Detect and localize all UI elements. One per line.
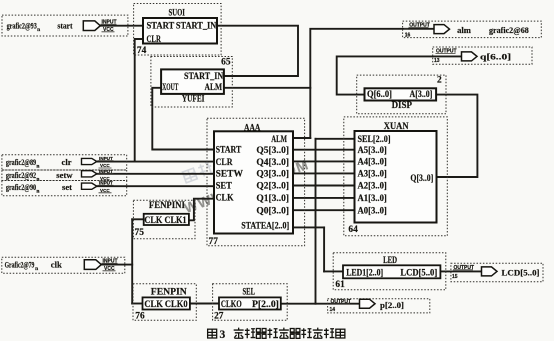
svg-text:SETW: SETW bbox=[216, 169, 244, 180]
svg-text:FENPIN: FENPIN bbox=[151, 287, 187, 297]
input pin symbol: set (grafic2@90) bbox=[6, 181, 114, 195]
svg-text:CLR: CLR bbox=[147, 34, 162, 45]
svg-text:61: 61 bbox=[335, 280, 345, 290]
input pin symbol: start (grafic2@93) bbox=[7, 19, 117, 33]
svg-text:grafic2@93: grafic2@93 bbox=[7, 21, 37, 31]
svg-text:setw: setw bbox=[56, 170, 73, 180]
svg-text:A4[3..0]: A4[3..0] bbox=[358, 157, 387, 167]
output pad p frame bbox=[328, 299, 430, 313]
wire: FENPIN.CLK0 to SEL.CLKO bbox=[190, 303, 219, 305]
svg-text:74: 74 bbox=[137, 46, 147, 56]
input pin symbol: setw (grafic2@92) bbox=[6, 169, 114, 183]
svg-text:2: 2 bbox=[437, 76, 442, 86]
svg-text:INPUT: INPUT bbox=[99, 156, 113, 161]
output pad alm frame bbox=[403, 21, 542, 37]
wire: DISP.A right, down, to XUAN.Q bbox=[436, 95, 477, 177]
wire: YUFEI.ALM right to alm vertical bbox=[224, 87, 310, 89]
wire: clr input to AAA.CLR bbox=[97, 161, 214, 163]
svg-text:start: start bbox=[57, 21, 72, 31]
wire: AAA.Q2 to XUAN.A2 bbox=[293, 185, 355, 187]
svg-text:START_IN: START_IN bbox=[184, 71, 223, 82]
svg-text:A5[3..0]: A5[3..0] bbox=[358, 145, 387, 155]
svg-text:Q[6..0]: Q[6..0] bbox=[367, 89, 392, 99]
svg-text:A0[3..0]: A0[3..0] bbox=[358, 205, 387, 215]
svg-text:n: n bbox=[36, 188, 39, 194]
svg-text:A2[3..0]: A2[3..0] bbox=[358, 181, 387, 191]
block AAA dashed frame bbox=[207, 118, 305, 246]
svg-text:16: 16 bbox=[405, 32, 411, 38]
wire: AAA.Q4 to XUAN.A4 bbox=[293, 160, 355, 162]
wire: alm vertical up to alm output pad bbox=[310, 29, 434, 138]
block DISP dashed frame bbox=[357, 75, 446, 114]
svg-text:n: n bbox=[37, 27, 40, 33]
input pad box: clk bbox=[2, 257, 125, 273]
block DISP body bbox=[365, 88, 437, 100]
svg-text:65: 65 bbox=[221, 58, 231, 68]
block LED body bbox=[343, 265, 440, 278]
svg-text:Q[3..0]: Q[3..0] bbox=[410, 173, 433, 183]
svg-text:P[2..0]: P[2..0] bbox=[252, 299, 279, 309]
output pad q frame bbox=[433, 47, 532, 64]
svg-text:FENPINI: FENPINI bbox=[149, 200, 185, 210]
svg-text:clr: clr bbox=[62, 157, 72, 167]
wire: STATEA branch vertical down to LED row bbox=[323, 227, 325, 271]
svg-text:set: set bbox=[62, 182, 72, 192]
output arrow LCD bbox=[482, 267, 498, 276]
svg-text:SEL[2..0]: SEL[2..0] bbox=[358, 134, 391, 144]
svg-text:grafic2@92: grafic2@92 bbox=[6, 170, 36, 180]
svg-text:YUFEI: YUFEI bbox=[182, 95, 205, 105]
svg-text:Q2[3..0]: Q2[3..0] bbox=[256, 181, 289, 192]
svg-text:LCD[5..0]: LCD[5..0] bbox=[400, 268, 437, 278]
output pad LCD frame bbox=[451, 263, 543, 282]
wire: clk input to clk vertical bbox=[100, 264, 132, 266]
block SEL dashed frame bbox=[213, 284, 288, 321]
svg-text:STATEA[2..0]: STATEA[2..0] bbox=[241, 221, 289, 232]
input pad box: set bbox=[2, 181, 127, 196]
block FENPIN body bbox=[143, 297, 190, 309]
svg-text:n: n bbox=[36, 163, 39, 169]
svg-text:START_IN: START_IN bbox=[176, 21, 216, 32]
svg-text:Q3[3..0]: Q3[3..0] bbox=[256, 169, 289, 180]
input pad box: clr bbox=[2, 155, 127, 170]
svg-text:3: 3 bbox=[220, 329, 226, 341]
svg-text:15: 15 bbox=[452, 274, 458, 280]
svg-text:A3[3..0]: A3[3..0] bbox=[358, 169, 387, 179]
wire: clk stub into FENPIN.CLK bbox=[132, 303, 142, 305]
wire: clk stub into FENPINI.CLK bbox=[132, 218, 144, 220]
block XUAN body bbox=[355, 131, 437, 223]
svg-text:VCC: VCC bbox=[100, 188, 110, 193]
svg-text:grafic2@90: grafic2@90 bbox=[6, 182, 36, 192]
svg-text:64: 64 bbox=[348, 225, 358, 235]
svg-text:75: 75 bbox=[135, 228, 145, 238]
wire: DISP.Q left, up, to q output pad bbox=[337, 56, 462, 94]
block YUFEI dashed frame bbox=[151, 57, 232, 108]
svg-text:ALM: ALM bbox=[271, 134, 287, 145]
wire: AAA.Q5 to XUAN.A5 bbox=[293, 149, 355, 151]
wire: SUOI.CLR stub left then down to clr net bbox=[135, 39, 143, 162]
svg-text:alm: alm bbox=[457, 25, 472, 35]
svg-text:START: START bbox=[216, 145, 242, 156]
block SEL body bbox=[219, 297, 281, 309]
block XUAN dashed frame bbox=[344, 117, 448, 236]
block YUFEI body bbox=[161, 69, 224, 94]
svg-text:LCD[5..0]: LCD[5..0] bbox=[502, 268, 540, 278]
wire: clk vertical between FENPINI and FENPIN bbox=[131, 219, 133, 303]
output arrow alm bbox=[434, 25, 450, 34]
svg-text:A1[3..0]: A1[3..0] bbox=[358, 193, 387, 203]
block AAA body bbox=[214, 131, 293, 233]
block SUOI dashed frame bbox=[134, 4, 222, 56]
svg-text:ALM: ALM bbox=[205, 82, 223, 93]
svg-text:CLK CLK0: CLK CLK0 bbox=[144, 299, 188, 309]
svg-text:Q1[3..0]: Q1[3..0] bbox=[256, 193, 289, 204]
block FENPINI dashed frame bbox=[133, 200, 195, 239]
svg-text:q[6..0]: q[6..0] bbox=[480, 52, 511, 62]
svg-text:SEL: SEL bbox=[243, 286, 256, 296]
input pin symbol: clk (Grafic2@79) bbox=[5, 258, 118, 272]
block FENPIN dashed frame bbox=[133, 284, 196, 321]
svg-text:n: n bbox=[35, 266, 38, 272]
svg-text:Grafic2@79: Grafic2@79 bbox=[5, 260, 35, 270]
svg-text:CLK: CLK bbox=[216, 193, 234, 204]
svg-text:clk: clk bbox=[51, 260, 62, 270]
svg-text:n: n bbox=[36, 176, 39, 182]
svg-text:Q5[3..0]: Q5[3..0] bbox=[256, 145, 289, 156]
wire: STATEA net main vertical (SEL row down to p row) bbox=[315, 139, 317, 304]
svg-text:XOUT: XOUT bbox=[162, 82, 179, 93]
wire: AAA.Q1 to XUAN.A1 bbox=[293, 197, 355, 199]
svg-text:Q4[3..0]: Q4[3..0] bbox=[256, 157, 289, 168]
wire: setw input to AAA.SETW bbox=[97, 173, 214, 175]
wire: AAA.Q0 to XUAN.A0 bbox=[293, 209, 355, 211]
wire: SUOI.START_IN right, down, into YUFEI.START_IN bbox=[217, 26, 298, 76]
svg-text:VCC: VCC bbox=[100, 163, 110, 168]
block FENPINI body bbox=[144, 214, 189, 225]
svg-text:p[2..0]: p[2..0] bbox=[380, 300, 404, 310]
wire: start input to SUOI.START bbox=[100, 25, 143, 27]
svg-text:27: 27 bbox=[214, 312, 224, 322]
svg-text:13: 13 bbox=[434, 58, 440, 64]
svg-text:14: 14 bbox=[330, 307, 336, 313]
wire: AAA.STATEA horizontal bbox=[293, 226, 324, 228]
block LED dashed frame bbox=[333, 253, 446, 290]
svg-text:CLR: CLR bbox=[216, 157, 234, 168]
svg-text:INPUT: INPUT bbox=[99, 169, 113, 174]
svg-text:START: START bbox=[147, 21, 175, 32]
svg-text:76: 76 bbox=[135, 312, 145, 322]
wire: AAA.Q3 to XUAN.A3 bbox=[293, 172, 355, 174]
svg-text:LED1[2..0]: LED1[2..0] bbox=[346, 268, 383, 278]
svg-text:Q0[3..0]: Q0[3..0] bbox=[256, 205, 289, 216]
wire: LED.LCD to LCD output pad bbox=[440, 270, 481, 272]
svg-text:DISP: DISP bbox=[392, 101, 413, 111]
wire: SEL.P to p output pad (through junction) bbox=[281, 303, 359, 305]
wire: STATEA net into XUAN.SEL bbox=[316, 138, 355, 140]
svg-text:CLK CLK1: CLK CLK1 bbox=[144, 215, 187, 225]
input pad box: setw bbox=[2, 170, 127, 181]
input pad box: start bbox=[2, 15, 128, 36]
svg-text:77: 77 bbox=[209, 237, 219, 247]
svg-text:grafic2@68: grafic2@68 bbox=[489, 25, 529, 35]
svg-text:SET: SET bbox=[216, 181, 233, 192]
wire: branch into LED.LED1 bbox=[324, 270, 343, 272]
output arrow p bbox=[360, 299, 376, 308]
svg-text:A[3..0]: A[3..0] bbox=[410, 89, 433, 99]
output arrow q bbox=[462, 52, 478, 61]
wire: YUFEI.XOUT left, down, to AAA.START bbox=[152, 88, 214, 150]
svg-text:grafic2@89: grafic2@89 bbox=[6, 157, 36, 167]
wire: AAA.ALM to alm vertical bbox=[293, 137, 310, 139]
svg-text:LED: LED bbox=[383, 255, 397, 265]
wire: set input to AAA.SET bbox=[97, 185, 214, 187]
wire: FENPINI.CLK1 jog up to AAA.CLK bbox=[189, 199, 214, 221]
block SUOI body bbox=[143, 18, 217, 44]
svg-text:SUOI: SUOI bbox=[169, 8, 186, 18]
input pin symbol: clr (grafic2@89) bbox=[6, 156, 114, 169]
svg-text:CLKO: CLKO bbox=[221, 299, 242, 309]
